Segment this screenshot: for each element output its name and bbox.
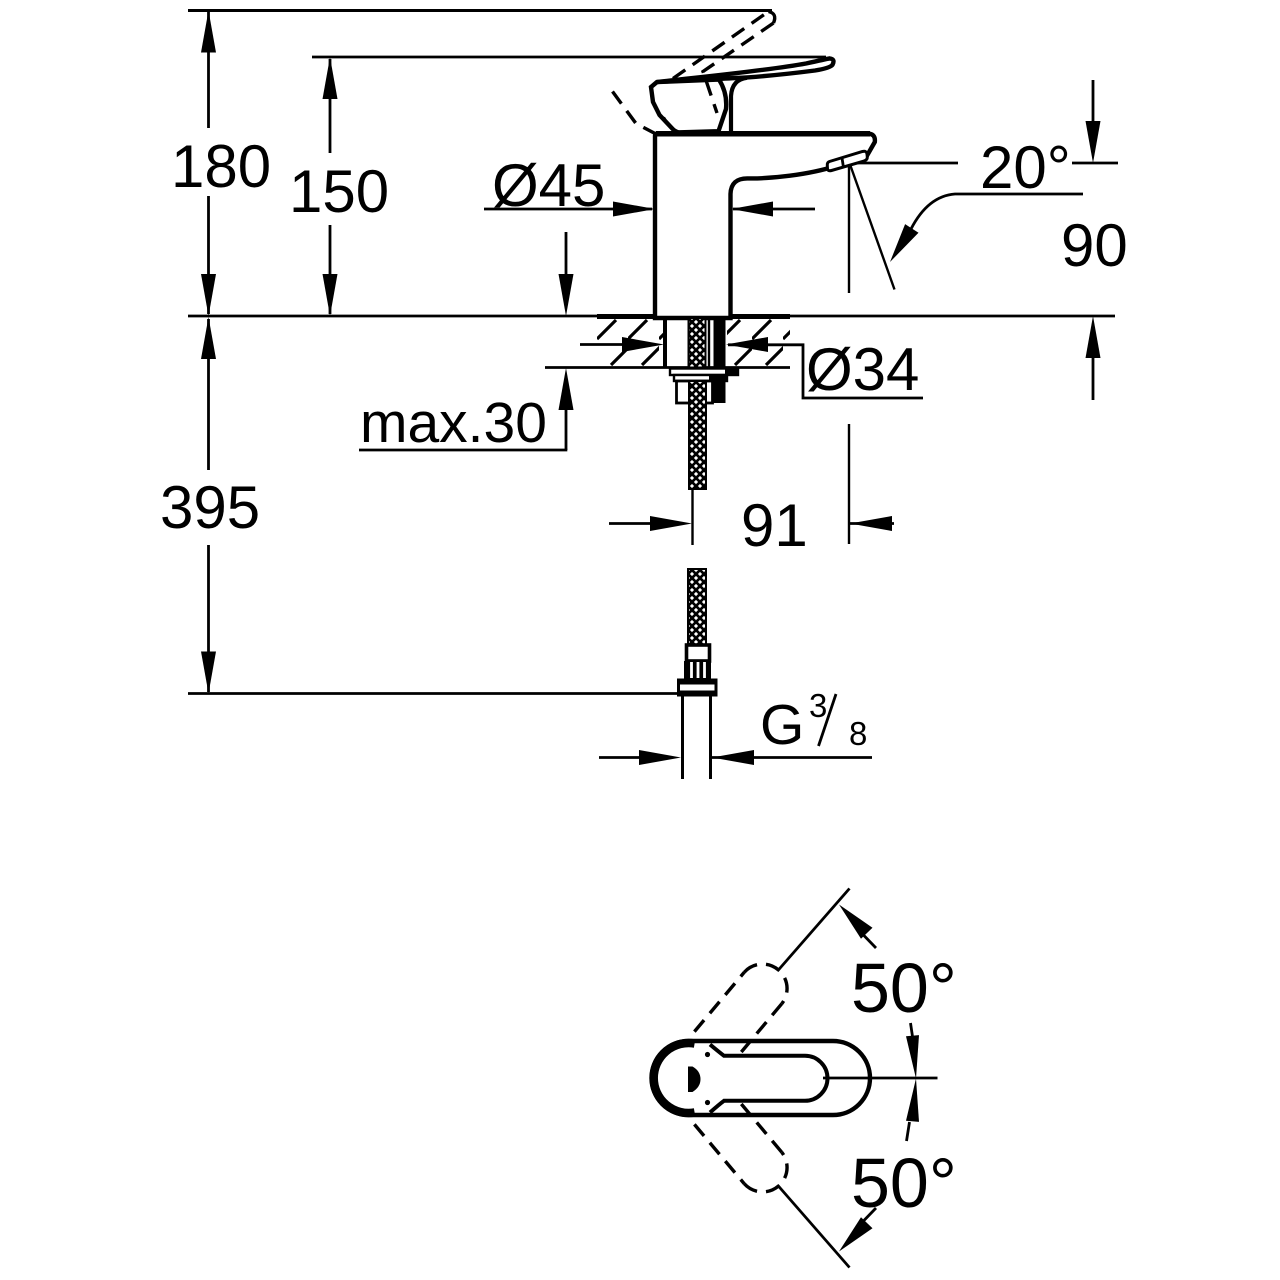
- dim line 180 lower segment: [207, 196, 210, 314]
- mounting nut outline: [677, 381, 713, 403]
- svg-text:max.30: max.30: [360, 391, 547, 455]
- dashed rotated lever lower: right side: [729, 1089, 782, 1152]
- arrow D45 left: [613, 202, 655, 217]
- handle lever blade: [657, 58, 834, 82]
- leader 20deg: [911, 194, 1083, 229]
- dim line 395 lower segment: [207, 545, 210, 692]
- svg-text:3: 3: [809, 687, 827, 724]
- arrow max30 top: [559, 274, 574, 316]
- arrow 50deg upper: [839, 905, 873, 939]
- svg-text:395: 395: [160, 474, 260, 541]
- faucet top edge thick line: [656, 131, 870, 137]
- plan centerline: [823, 1077, 938, 1080]
- counter hatch left: [597, 319, 663, 367]
- svg-text:50°: 50°: [851, 1144, 957, 1222]
- dim line 150 upper segment: [329, 59, 332, 153]
- arrow max30 bottom: [559, 368, 574, 410]
- arrow 395 bottom: [201, 652, 216, 694]
- dim line D45 right tail: [733, 208, 815, 211]
- fraction slash: [819, 694, 837, 746]
- connection tube right wall: [709, 697, 712, 780]
- connector ferrule: [687, 645, 710, 661]
- svg-text:20°: 20°: [980, 134, 1071, 201]
- swing vertex upper arrow: [906, 1035, 919, 1078]
- washer upper: [670, 369, 738, 376]
- shank left wall: [663, 318, 667, 367]
- leader D34: [728, 345, 923, 398]
- swing vertex lower tail: [907, 1122, 910, 1141]
- connector rib slit 1: [690, 662, 693, 678]
- svg-text:8: 8: [849, 715, 867, 752]
- svg-text:50°: 50°: [851, 949, 957, 1027]
- connector rib slit 3: [703, 662, 706, 678]
- construction line slanted 20deg: [850, 163, 895, 290]
- handle cap outline: [651, 80, 726, 133]
- handle cap bottom arc detail: [664, 118, 682, 133]
- arrow 50deg lower: [839, 1217, 873, 1251]
- spout outlet reference line right part: [1072, 162, 1118, 165]
- hose centerline segment: [691, 489, 693, 545]
- svg-text:91: 91: [741, 492, 808, 559]
- connector hex nut white band: [680, 685, 715, 691]
- connection tube left wall: [681, 697, 684, 780]
- svg-text:180: 180: [171, 133, 271, 200]
- counter hatch right: [727, 319, 790, 367]
- construction line spout axis lower segment: [848, 424, 850, 544]
- washer lower: [674, 375, 727, 381]
- dim extension line top (180 level): [188, 9, 772, 12]
- dim tail G38 left: [599, 756, 641, 759]
- dim tail 91 right: [850, 522, 894, 525]
- faucet body and spout outline: [655, 134, 875, 319]
- dashed rotated lever upper: end cap: [744, 964, 787, 1004]
- svg-text:150: 150: [289, 158, 389, 225]
- shank right black bar: [714, 318, 726, 368]
- arrow 180 top: [201, 11, 216, 53]
- arrow 90 bottom: [1086, 316, 1101, 358]
- dim line 90 lower segment: [1092, 357, 1095, 400]
- shank inner line: [708, 318, 710, 367]
- svg-text:G: G: [760, 693, 804, 757]
- dim line 150 lower segment: [329, 225, 332, 314]
- arrow 90 top: [1086, 121, 1101, 163]
- arrow D45 right: [731, 202, 773, 217]
- countertop line: [188, 315, 1115, 318]
- leader tail 50deg lower: [862, 1208, 876, 1223]
- washer lower black end: [709, 375, 727, 381]
- dashed raised lever lower edge: [703, 23, 774, 113]
- hose end reference line (395 bottom): [188, 692, 677, 695]
- svg-text:90: 90: [1061, 212, 1128, 279]
- arrow D34 left: [622, 337, 664, 352]
- swing vertex lower arrow: [906, 1079, 919, 1122]
- handle plan outer outline: [652, 1041, 871, 1115]
- mounting nut black side: [712, 380, 726, 404]
- dim extension line 150 level: [312, 56, 826, 59]
- flexible hose braid below counter: [689, 381, 706, 489]
- dim line 180 upper segment: [207, 12, 210, 128]
- arrow G38 left: [639, 750, 681, 765]
- aerator outline: [827, 151, 867, 170]
- dashed rotated lever upper: left side: [694, 972, 744, 1031]
- washer upper black end: [725, 369, 738, 376]
- dashed raised lever tip arc: [769, 12, 775, 24]
- svg-text:Ø34: Ø34: [806, 336, 919, 403]
- arrow 395 top: [201, 317, 216, 359]
- handle plan notch dot bottom: [705, 1100, 710, 1105]
- dashed rotated lever lower: left side: [694, 1124, 744, 1183]
- arrow 180 bottom: [201, 274, 216, 316]
- swing vertex upper tail: [911, 1023, 914, 1040]
- handle plan blade outline: [710, 1045, 828, 1113]
- dim tail G38 right: [712, 756, 872, 759]
- arrow 150 bottom: [323, 274, 338, 316]
- arrow G38 right: [712, 750, 754, 765]
- dim tail D34 left: [580, 343, 622, 346]
- handle plan notch dot top: [705, 1052, 710, 1057]
- arrow 91 left: [650, 516, 692, 531]
- dim line 50deg lower: [778, 1185, 850, 1268]
- dim line D45: [484, 208, 652, 211]
- shank braid section: [689, 318, 706, 368]
- connector rib slit 2: [697, 662, 700, 678]
- arrow 20deg leader: [890, 224, 919, 262]
- handle plan cap thick arc: [654, 1043, 695, 1113]
- dim tail 91 left: [609, 522, 650, 525]
- dashed rotated lever upper: right side: [729, 1004, 782, 1067]
- connector ribbed section: [684, 661, 711, 679]
- spout outlet reference line: [849, 162, 958, 165]
- lower hose braid: [688, 569, 706, 645]
- handle plan D mark: [688, 1067, 701, 1093]
- label max.30 underline: [359, 449, 567, 452]
- dashed raised lever upper edge: [673, 12, 769, 79]
- leader tail 50deg upper: [862, 934, 876, 949]
- dim line 395 upper segment: [207, 319, 210, 470]
- dashed raised cap outline: [613, 92, 657, 135]
- connector hex nut: [677, 679, 718, 697]
- aerator divider: [842, 158, 844, 168]
- handle neck curve: [731, 78, 747, 131]
- dim line max30 lower: [565, 408, 568, 450]
- handle plan blade interior: [698, 1045, 828, 1113]
- arrow D34 right: [726, 337, 768, 352]
- arrow 91 right: [850, 516, 892, 531]
- construction line vertical at spout outlet: [848, 163, 850, 293]
- dim line 50deg upper: [778, 889, 850, 972]
- arrow 150 top: [323, 57, 338, 99]
- dim line max30 upper: [565, 232, 568, 276]
- dashed rotated lever lower: end cap: [744, 1152, 787, 1192]
- counter underside line: [545, 366, 790, 369]
- handle plan cap interior: [659, 1048, 719, 1108]
- countertop slab top thick edge: [597, 314, 790, 319]
- dim line 90 upper segment: [1092, 80, 1095, 124]
